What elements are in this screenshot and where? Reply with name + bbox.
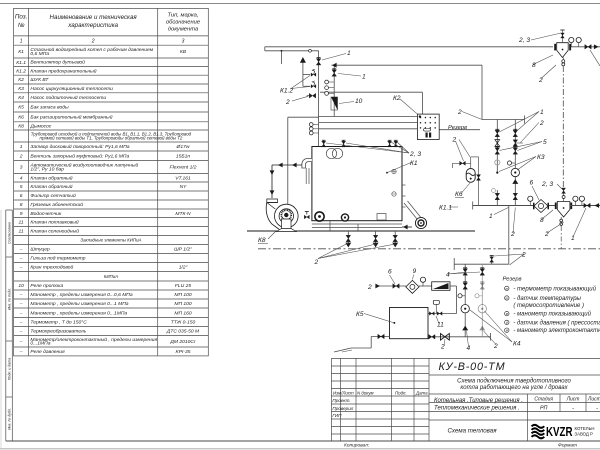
svg-text:К2: К2 bbox=[393, 95, 401, 102]
svg-text:Реле давления: Реле давления bbox=[30, 349, 65, 355]
svg-text:4: 4 bbox=[467, 345, 471, 352]
svg-text:Затвор дисковый поворотный: Р: Затвор дисковый поворотный: Ру1,6 МПа bbox=[30, 143, 129, 150]
svg-text:2: 2 bbox=[440, 344, 445, 351]
svg-text:КИПиА: КИПиА bbox=[104, 274, 118, 279]
svg-text:К5: К5 bbox=[18, 105, 24, 111]
svg-text:–: – bbox=[19, 330, 23, 335]
svg-text:Копировал:: Копировал: bbox=[344, 442, 370, 448]
svg-text:15Б1п: 15Б1п bbox=[176, 153, 190, 159]
svg-text:1: 1 bbox=[347, 50, 351, 57]
svg-text:К3: К3 bbox=[18, 86, 24, 92]
svg-text:Клапан обратный: Клапан обратный bbox=[30, 174, 72, 181]
svg-text:6: 6 bbox=[530, 180, 534, 187]
svg-text:-: - bbox=[572, 405, 574, 411]
svg-text:Дымосос: Дымосос bbox=[29, 123, 51, 129]
svg-text:КУ-В-00-ТМ: КУ-В-00-ТМ bbox=[439, 361, 506, 373]
svg-text:KVZR: KVZR bbox=[546, 424, 573, 439]
svg-text:Штуцер: Штуцер bbox=[30, 247, 50, 253]
svg-text:Вентилятор дутьевой: Вентилятор дутьевой bbox=[30, 59, 85, 66]
svg-text:–: – bbox=[19, 321, 23, 326]
svg-text:К1.1: К1.1 bbox=[16, 60, 26, 66]
svg-text:KPI-35: KPI-35 bbox=[175, 349, 190, 355]
svg-text:11: 11 bbox=[19, 220, 24, 226]
svg-text:Клапан обратный: Клапан обратный bbox=[30, 183, 72, 190]
svg-text:- манометр показывающий: - манометр показывающий bbox=[513, 311, 591, 318]
svg-text:Насос циркуляционный теплосети: Насос циркуляционный теплосети bbox=[30, 85, 113, 92]
svg-text:1/2": 1/2" bbox=[179, 265, 188, 271]
svg-text:1: 1 bbox=[20, 144, 23, 150]
svg-text:1: 1 bbox=[20, 38, 23, 44]
svg-text:FLU 25: FLU 25 bbox=[175, 283, 191, 289]
svg-text:8: 8 bbox=[540, 217, 544, 224]
svg-text:К3: К3 bbox=[537, 154, 545, 161]
svg-text:2: 2 bbox=[521, 252, 526, 259]
svg-text:Клапан поплавковый: Клапан поплавковый bbox=[30, 219, 79, 226]
svg-text:–: – bbox=[19, 340, 23, 345]
svg-text:д: д bbox=[506, 321, 508, 325]
svg-text:2: 2 bbox=[493, 343, 498, 350]
svg-text:9: 9 bbox=[20, 211, 23, 217]
svg-text:1: 1 bbox=[489, 213, 493, 220]
svg-text:Тип, марка,: Тип, марка, bbox=[168, 13, 199, 19]
svg-text:документа: документа bbox=[168, 27, 199, 33]
svg-text:2, 3: 2, 3 bbox=[518, 37, 530, 44]
svg-text:Схема тепловая: Схема тепловая bbox=[447, 428, 497, 435]
svg-text:К4: К4 bbox=[513, 341, 521, 348]
svg-text:ДМ 2010Сr: ДМ 2010Сr bbox=[169, 339, 196, 345]
svg-text:Flexvent 1/2: Flexvent 1/2 bbox=[170, 165, 197, 171]
svg-text:МП 100: МП 100 bbox=[174, 292, 192, 298]
svg-text:К1: К1 bbox=[18, 49, 24, 55]
svg-text:МП 160: МП 160 bbox=[174, 310, 192, 316]
svg-text:Манометр , пределы измерения: Манометр , пределы измерения 0...1 МПа bbox=[30, 301, 128, 307]
svg-text:6: 6 bbox=[20, 193, 23, 199]
svg-text:ШР 1/2": ШР 1/2" bbox=[174, 247, 192, 253]
svg-text:1/2", Ру 10 бар: 1/2", Ру 10 бар bbox=[30, 167, 64, 173]
svg-text:Котельная .Типовые решения .: Котельная .Типовые решения . bbox=[434, 398, 523, 404]
svg-text:- термометр показывающий: - термометр показывающий bbox=[513, 285, 596, 292]
svg-text:VT.161: VT.161 bbox=[175, 175, 191, 181]
svg-text:К1.2: К1.2 bbox=[280, 88, 293, 95]
svg-text:- манометр электроконтактны: - манометр электроконтактны bbox=[513, 328, 600, 334]
svg-text:–: – bbox=[19, 248, 23, 253]
svg-text:4: 4 bbox=[446, 272, 450, 279]
svg-text:Фильтр сетчатый: Фильтр сетчатый bbox=[30, 192, 76, 199]
svg-text:Водосчетчик: Водосчетчик bbox=[30, 211, 61, 217]
svg-text:5: 5 bbox=[543, 139, 547, 146]
svg-text:Формат: Формат bbox=[558, 442, 577, 448]
svg-text:Листов: Листов bbox=[587, 397, 600, 403]
svg-text:Гильза под термометр: Гильза под термометр bbox=[30, 256, 85, 262]
svg-text:ДТС 035-50 М: ДТС 035-50 М bbox=[166, 329, 200, 335]
svg-text:2: 2 bbox=[367, 284, 372, 291]
svg-text:Тепломеханические решения .: Тепломеханические решения . bbox=[434, 406, 520, 412]
svg-text:–: – bbox=[19, 311, 23, 316]
svg-text:–: – bbox=[19, 350, 23, 355]
svg-text:11: 11 bbox=[19, 229, 24, 235]
svg-text:ШУК ВТ: ШУК ВТ bbox=[30, 77, 49, 83]
svg-text:Схема подключения твердотоплив: Схема подключения твердотопливного bbox=[457, 379, 571, 385]
svg-text:Подп.: Подп. bbox=[395, 390, 407, 395]
svg-text:2, 3: 2, 3 bbox=[541, 181, 553, 188]
svg-text:8: 8 bbox=[532, 62, 536, 69]
svg-text:9: 9 bbox=[413, 268, 417, 275]
svg-text:NY: NY bbox=[180, 184, 188, 190]
svg-text:2: 2 bbox=[91, 38, 95, 44]
svg-text:2: 2 bbox=[538, 77, 543, 84]
svg-text:КВ: КВ bbox=[180, 49, 187, 55]
svg-text:РП: РП bbox=[540, 405, 548, 411]
svg-text:2, 3: 2, 3 bbox=[409, 151, 421, 158]
svg-text:1: 1 bbox=[362, 74, 366, 81]
svg-text:1: 1 bbox=[540, 109, 544, 116]
svg-text:МП 100: МП 100 bbox=[174, 301, 192, 307]
svg-text:Клапан предохранительный: Клапан предохранительный bbox=[30, 67, 96, 74]
svg-text:–: – bbox=[19, 266, 23, 271]
svg-text:3: 3 bbox=[182, 38, 185, 44]
svg-text:10: 10 bbox=[355, 98, 363, 105]
svg-text:Резерв: Резерв bbox=[448, 125, 467, 131]
svg-text:Изм/Лист: Изм/Лист bbox=[333, 390, 354, 395]
svg-text:котла работающего на угле / др: котла работающего на угле / дровах bbox=[460, 385, 568, 391]
svg-text:11: 11 bbox=[437, 322, 444, 329]
svg-text:Стадия: Стадия bbox=[534, 397, 553, 403]
svg-text:К6: К6 bbox=[18, 115, 24, 121]
svg-text:–: – bbox=[19, 293, 23, 298]
svg-text:К6: К6 bbox=[455, 191, 463, 198]
svg-text:Наименование и техническая: Наименование и техническая bbox=[50, 14, 138, 21]
svg-text:Реле протока: Реле протока bbox=[30, 283, 63, 289]
svg-text:Согласовано: Согласовано bbox=[8, 222, 12, 244]
svg-text:К5: К5 bbox=[356, 311, 364, 318]
svg-text:Закладные элементы КИПиА: Закладные элементы КИПиА bbox=[80, 238, 141, 243]
svg-text:N докум: N докум bbox=[357, 390, 374, 395]
svg-text:КОТЕЛЬН: КОТЕЛЬН bbox=[575, 426, 595, 431]
svg-text:Клапан соленоидный: Клапан соленоидный bbox=[30, 228, 79, 235]
svg-text:характеристика: характеристика bbox=[67, 22, 118, 29]
svg-text:2: 2 bbox=[452, 137, 457, 144]
svg-text:0...1МПа: 0...1МПа bbox=[30, 341, 50, 347]
svg-text:0,6 МПа: 0,6 МПа bbox=[30, 51, 49, 57]
svg-text:–: – bbox=[19, 257, 23, 262]
svg-text:Проверил: Проверил bbox=[332, 406, 353, 411]
svg-text:К8: К8 bbox=[258, 237, 266, 244]
svg-text:Вентиль запорный муфтовый: Ру: Вентиль запорный муфтовый: Ру1,6 МПа bbox=[30, 152, 129, 159]
svg-text:2: 2 bbox=[314, 259, 319, 266]
svg-text:Термометр , Т до 150°С: Термометр , Т до 150°С bbox=[30, 320, 87, 326]
svg-text:Ø17w: Ø17w bbox=[176, 144, 190, 150]
svg-text:Термопреобразователь: Термопреобразователь bbox=[30, 329, 86, 335]
svg-text:2: 2 bbox=[19, 153, 23, 159]
svg-text:3: 3 bbox=[20, 165, 23, 171]
svg-text:5: 5 bbox=[20, 184, 23, 190]
svg-text:Бак запаса воды: Бак запаса воды bbox=[30, 105, 69, 111]
svg-text:ТТЖ 0-150: ТТЖ 0-150 bbox=[171, 320, 196, 326]
svg-text:( термосопротивление ): ( термосопротивление ) bbox=[513, 303, 584, 309]
svg-text:К2: К2 bbox=[18, 77, 24, 83]
svg-text:Лист: Лист bbox=[566, 397, 580, 403]
svg-text:ГИП: ГИП bbox=[332, 413, 342, 418]
svg-text:Кран трехходовой: Кран трехходовой bbox=[30, 264, 73, 271]
svg-text:Манометр , пределы измерения: Манометр , пределы измерения 0...1МПа bbox=[30, 310, 127, 316]
svg-text:Грязевик абонентский: Грязевик абонентский bbox=[30, 201, 83, 208]
svg-text:№: № bbox=[18, 22, 25, 29]
svg-text:Манометр , пределы измерения: Манометр , пределы измерения 0...0,6 МПа bbox=[30, 292, 132, 298]
svg-text:4: 4 bbox=[20, 175, 23, 181]
svg-text:2: 2 bbox=[539, 120, 544, 127]
svg-text:К1.2: К1.2 bbox=[16, 68, 26, 74]
svg-text:Инв. № подл.: Инв. № подл. bbox=[8, 288, 12, 310]
svg-text:8: 8 bbox=[20, 202, 23, 208]
svg-text:К4: К4 bbox=[18, 95, 24, 101]
svg-text:К8: К8 bbox=[18, 124, 24, 130]
svg-text:Инв. № дубл.: Инв. № дубл. bbox=[8, 408, 12, 430]
svg-text:- датчик температуры: - датчик температуры bbox=[513, 296, 581, 302]
svg-text:-: - bbox=[596, 405, 598, 411]
svg-text:Резерв: Резерв bbox=[503, 277, 522, 283]
svg-text:6: 6 bbox=[388, 269, 392, 276]
svg-text:2: 2 bbox=[544, 231, 549, 238]
svg-text:Дата: Дата bbox=[415, 390, 428, 395]
svg-text:прямой сетевой воды Т1, Трубо: прямой сетевой воды Т1, Трубопроводы обр… bbox=[40, 136, 183, 141]
svg-text:Проект.: Проект. bbox=[332, 398, 350, 403]
svg-text:Подп. и дата: Подп. и дата bbox=[8, 358, 12, 381]
svg-text:т: т bbox=[505, 296, 508, 300]
svg-text:2: 2 bbox=[510, 231, 515, 238]
svg-text:–: – bbox=[19, 302, 23, 307]
svg-text:К1.1: К1.1 bbox=[439, 205, 452, 212]
svg-text:10: 10 bbox=[18, 283, 24, 289]
svg-text:ЗАВОД Р: ЗАВОД Р bbox=[575, 432, 594, 437]
svg-text:МТК-N: МТК-N bbox=[175, 211, 191, 217]
svg-text:1: 1 bbox=[571, 235, 575, 242]
svg-text:- датчик давления ( прессоста: - датчик давления ( прессостат bbox=[513, 320, 600, 326]
svg-text:2: 2 bbox=[285, 99, 290, 106]
svg-text:Бак расширительный мембранный: Бак расширительный мембранный bbox=[30, 113, 112, 120]
svg-text:К1: К1 bbox=[410, 160, 418, 167]
svg-text:Насос подпиточный теплосети: Насос подпиточный теплосети bbox=[30, 94, 106, 101]
svg-text:Поз.: Поз. bbox=[15, 14, 27, 21]
svg-text:2: 2 bbox=[457, 109, 462, 116]
svg-text:обозначение: обозначение bbox=[166, 20, 201, 26]
svg-text:т: т bbox=[505, 287, 508, 291]
